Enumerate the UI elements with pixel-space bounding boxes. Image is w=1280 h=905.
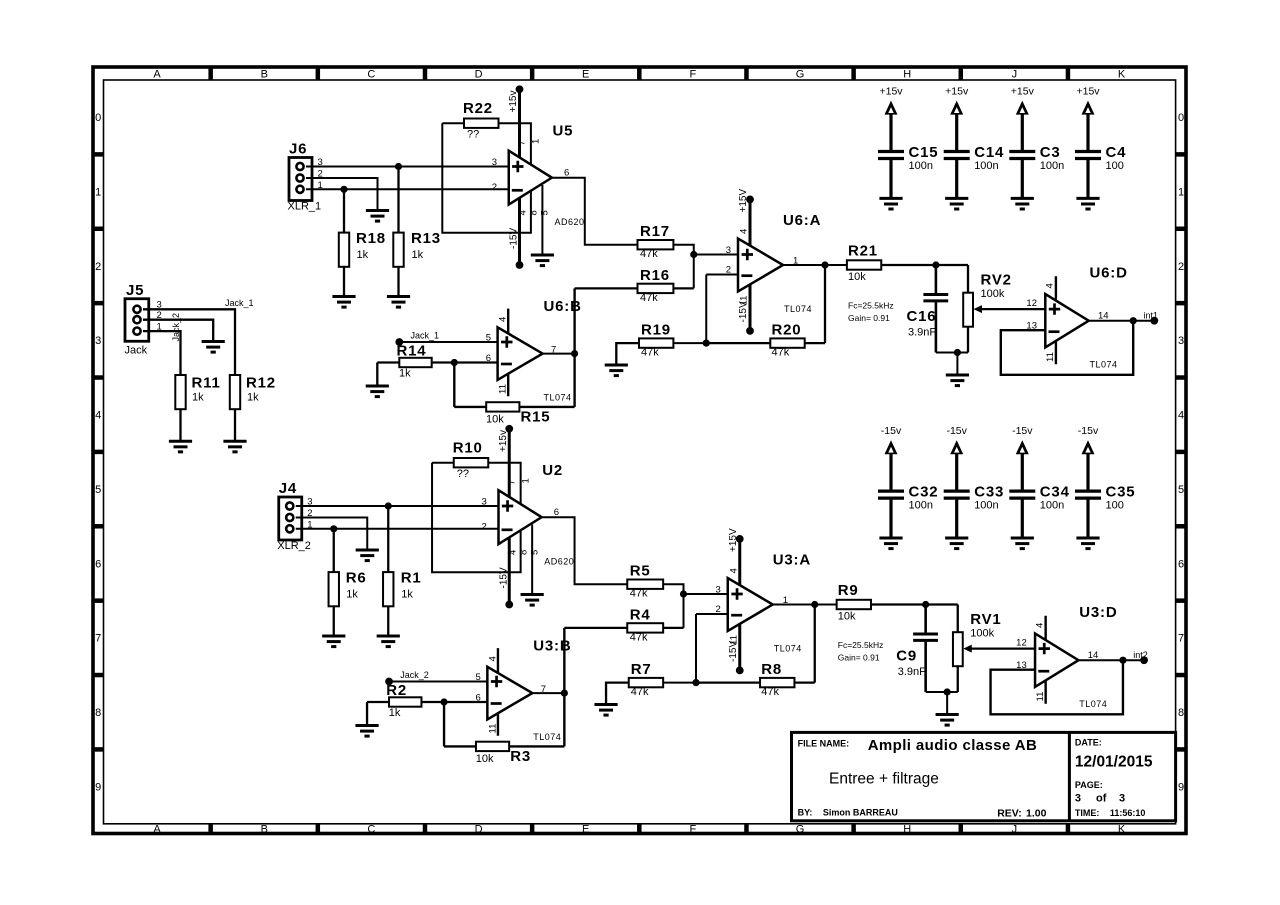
svg-text:4: 4: [728, 568, 739, 573]
svg-text:1k: 1k: [192, 392, 204, 404]
resistor R15 10k: [454, 402, 574, 425]
svg-text:12: 12: [1016, 638, 1027, 649]
wire: [946, 692, 948, 715]
ground: [945, 198, 968, 209]
svg-text:Jack_1: Jack_1: [411, 331, 440, 341]
svg-text:-15v: -15v: [946, 425, 967, 437]
ground: [322, 636, 345, 647]
ground: [223, 441, 246, 452]
resistor R12 1k: [230, 375, 276, 442]
svg-text:0: 0: [1178, 112, 1184, 124]
svg-text:TL074: TL074: [1090, 360, 1118, 370]
wire noninv: [389, 681, 487, 683]
svg-text:1k: 1k: [412, 249, 424, 261]
connector J5 (Jack): [125, 282, 162, 357]
svg-text:Simon BARREAU: Simon BARREAU: [823, 807, 898, 817]
svg-text:R6: R6: [346, 570, 367, 587]
svg-text:100k: 100k: [981, 288, 1005, 300]
svg-text:-15V: -15V: [509, 228, 520, 249]
ground: [521, 595, 544, 606]
resistor R14 1k: [377, 343, 497, 387]
svg-text:R9: R9: [838, 582, 859, 599]
svg-text:100: 100: [1106, 160, 1124, 172]
node Jack_1: [225, 298, 254, 308]
svg-text:Gain= 0.91: Gain= 0.91: [838, 653, 880, 663]
svg-text:DATE:: DATE:: [1075, 737, 1102, 747]
svg-text:R12: R12: [246, 375, 276, 392]
svg-text:R8: R8: [761, 661, 782, 678]
svg-text:R2: R2: [386, 682, 407, 699]
wire pin5: [541, 185, 543, 255]
svg-text:100n: 100n: [974, 500, 998, 512]
svg-text:R3: R3: [510, 748, 531, 765]
svg-text:5: 5: [529, 550, 540, 555]
ground: [366, 386, 389, 397]
junction: [395, 163, 402, 170]
wire: [573, 288, 575, 407]
capacitor C14: [944, 144, 1004, 198]
svg-text:K: K: [1118, 824, 1126, 836]
svg-text:4: 4: [1045, 283, 1056, 288]
wire pin3: [143, 309, 235, 375]
capacitor C3: [1009, 144, 1064, 198]
svg-text:C32: C32: [909, 484, 939, 501]
junction: [954, 349, 961, 356]
svg-text:-15v: -15v: [1012, 425, 1033, 437]
ground: [377, 636, 400, 647]
resistor R10 ??: [453, 440, 489, 481]
svg-text:TL074: TL074: [544, 393, 572, 403]
svg-text:-15v: -15v: [881, 425, 902, 437]
svg-text:8: 8: [529, 210, 540, 215]
svg-text:3: 3: [726, 245, 731, 256]
svg-text:-15V: -15V: [728, 641, 739, 662]
junction: [932, 261, 939, 268]
resistor R5 47k: [627, 563, 663, 600]
svg-text:-15V: -15V: [498, 567, 509, 588]
svg-text:1: 1: [520, 478, 531, 483]
svg-text:2: 2: [1178, 261, 1184, 273]
ground: [605, 365, 628, 376]
junction: [571, 350, 578, 357]
svg-text:8: 8: [95, 707, 101, 719]
wire: [926, 691, 958, 693]
wire pin3: [306, 166, 509, 168]
svg-text:7: 7: [1178, 633, 1184, 645]
svg-text:-15V: -15V: [738, 301, 749, 322]
svg-text:A: A: [153, 824, 161, 836]
svg-text:Jack_2: Jack_2: [400, 670, 429, 680]
svg-text:1k: 1k: [247, 392, 259, 404]
op-amp U5 AD620: [492, 123, 585, 228]
svg-text:10k: 10k: [838, 611, 856, 623]
capacitor C9 3.9nF: [896, 605, 938, 693]
wire feedback: [1001, 321, 1133, 375]
svg-text:11: 11: [498, 384, 509, 394]
wire gain loop: [432, 463, 521, 573]
svg-text:C3: C3: [1040, 144, 1061, 161]
power flag -15v: [881, 425, 902, 491]
svg-text:4: 4: [1034, 623, 1045, 628]
svg-text:U3:B: U3:B: [533, 638, 571, 655]
resistor R20 47k: [706, 265, 825, 359]
ground: [1011, 198, 1034, 209]
svg-text:TL074: TL074: [784, 304, 812, 314]
svg-text:1: 1: [1178, 186, 1184, 198]
svg-text:47k: 47k: [640, 292, 658, 304]
resistor R3 10k: [444, 742, 564, 765]
svg-text:H: H: [903, 69, 911, 81]
svg-text:+15v: +15v: [498, 430, 509, 452]
svg-text:11:56:10: 11:56:10: [1110, 808, 1146, 818]
svg-text:AD620: AD620: [544, 557, 574, 567]
potentiometer RV2 100k: [963, 265, 1045, 353]
svg-text:6: 6: [95, 558, 101, 570]
op-amp U6:B TL074: [486, 298, 582, 403]
junction: [680, 590, 687, 597]
junction: [1119, 657, 1126, 664]
svg-text:1k: 1k: [346, 589, 358, 601]
svg-text:D: D: [475, 69, 483, 81]
svg-text:10k: 10k: [486, 414, 504, 426]
wire noninv: [694, 254, 738, 256]
ground: [946, 375, 969, 386]
svg-text:4: 4: [739, 229, 750, 234]
svg-text:C9: C9: [896, 648, 917, 665]
border frame: [92, 66, 1187, 836]
node int2: [1133, 650, 1148, 664]
wire: [563, 628, 565, 747]
junction: [330, 525, 337, 532]
svg-text:F: F: [690, 69, 697, 81]
svg-text:C35: C35: [1106, 484, 1136, 501]
junction: [690, 251, 697, 258]
wire power stubs: [487, 648, 498, 736]
ground: [1076, 198, 1099, 209]
svg-text:1k: 1k: [401, 589, 413, 601]
svg-text:Jack: Jack: [125, 345, 148, 357]
junction: [944, 688, 951, 695]
resistor R8 47k: [696, 605, 815, 699]
ground: [531, 255, 554, 266]
svg-text:RV2: RV2: [981, 272, 1012, 289]
wire: [936, 352, 968, 354]
svg-text:R5: R5: [630, 563, 651, 580]
svg-text:C16: C16: [907, 308, 937, 325]
node Jack_2: [385, 670, 429, 685]
svg-text:4: 4: [95, 410, 101, 422]
svg-text:1: 1: [95, 186, 101, 198]
svg-text:4: 4: [487, 656, 498, 661]
svg-text:10k: 10k: [476, 753, 494, 765]
svg-text:3: 3: [492, 157, 497, 168]
svg-text:5: 5: [1178, 484, 1184, 496]
svg-text:+15v: +15v: [879, 86, 903, 98]
svg-text:47k: 47k: [630, 588, 648, 600]
resistor R21 10k: [847, 243, 968, 284]
power +15V line: [738, 189, 754, 335]
svg-text:14: 14: [1098, 310, 1109, 321]
svg-text:BY:: BY:: [798, 807, 813, 817]
junction: [1130, 317, 1137, 324]
svg-text:C14: C14: [974, 144, 1004, 161]
svg-text:6: 6: [475, 693, 480, 704]
wire feedback: [991, 660, 1123, 714]
svg-text:12: 12: [1026, 298, 1037, 309]
svg-text:47k: 47k: [772, 347, 790, 359]
svg-text:TL074: TL074: [774, 644, 802, 654]
capacitor C32: [878, 484, 938, 538]
ground: [169, 441, 192, 452]
svg-text:RV1: RV1: [970, 611, 1001, 628]
wire out: [552, 178, 638, 245]
op-amp U6:A TL074: [726, 212, 822, 314]
svg-text:100n: 100n: [1040, 500, 1064, 512]
svg-text:+15v: +15v: [508, 91, 519, 113]
wire out: [1078, 659, 1144, 661]
svg-text:U6:A: U6:A: [783, 212, 821, 229]
svg-text:int1: int1: [1144, 310, 1159, 320]
svg-text:1: 1: [531, 139, 542, 144]
node Jack_1: [395, 331, 439, 346]
svg-text:K: K: [1118, 69, 1126, 81]
svg-text:11: 11: [1035, 692, 1046, 702]
svg-text:2: 2: [715, 604, 720, 615]
wire: [673, 245, 693, 289]
svg-text:TL074: TL074: [1079, 699, 1107, 709]
power flag +15v: [879, 86, 903, 152]
capacitor C34: [1009, 484, 1069, 538]
resistor R16 47k: [575, 267, 694, 304]
wire pin2: [143, 320, 213, 342]
svg-text:G: G: [796, 69, 805, 81]
svg-text:9: 9: [1178, 781, 1184, 793]
ground: [594, 705, 617, 716]
ground: [355, 726, 378, 737]
title block: [792, 732, 1176, 820]
wire power stubs: [498, 309, 509, 397]
svg-text:R14: R14: [397, 343, 427, 360]
svg-text:4: 4: [507, 550, 518, 555]
svg-text:J6: J6: [289, 141, 307, 158]
ground: [366, 211, 389, 222]
resistor R13 1k: [393, 167, 441, 297]
svg-text:R10: R10: [453, 440, 483, 457]
svg-text:Entree + filtrage: Entree + filtrage: [829, 770, 939, 787]
svg-text:TIME:: TIME:: [1075, 808, 1100, 818]
svg-text:5: 5: [540, 210, 551, 215]
svg-text:H: H: [903, 824, 911, 836]
svg-text:AD620: AD620: [555, 217, 585, 227]
ground: [332, 297, 355, 308]
wire pin2: [306, 178, 378, 211]
svg-text:B: B: [261, 824, 268, 836]
svg-text:5: 5: [486, 333, 491, 344]
svg-text:3: 3: [715, 585, 720, 596]
svg-text:3: 3: [1075, 792, 1081, 804]
svg-text:47k: 47k: [631, 686, 649, 698]
svg-text:R15: R15: [521, 409, 551, 426]
ground: [1011, 538, 1034, 549]
svg-text:U6:D: U6:D: [1090, 265, 1128, 282]
svg-text:2: 2: [492, 182, 497, 193]
svg-text:B: B: [261, 69, 268, 81]
svg-text:5: 5: [475, 672, 480, 683]
wire pin5: [531, 525, 533, 595]
ground: [387, 297, 410, 308]
wire noninv: [684, 593, 728, 595]
note Fc/Gain: [838, 640, 884, 663]
resistor R4 47k: [564, 607, 683, 644]
wire pin1: [306, 188, 509, 190]
svg-text:U3:A: U3:A: [773, 552, 811, 569]
svg-text:Gain= 0.91: Gain= 0.91: [848, 313, 890, 323]
wire pin1: [143, 331, 181, 375]
ground: [356, 550, 379, 561]
svg-text:47k: 47k: [641, 347, 659, 359]
svg-text:J4: J4: [279, 480, 297, 497]
svg-text:4: 4: [518, 210, 529, 215]
wire inv: [705, 275, 707, 344]
power flag -15v: [946, 425, 967, 491]
wire: [673, 342, 706, 344]
node Jack_2: [171, 313, 181, 342]
op-amp U3:A TL074: [715, 552, 811, 654]
power +15v line: [498, 425, 513, 608]
capacitor C33: [944, 484, 1004, 538]
wire: [696, 613, 728, 615]
svg-text:9: 9: [95, 781, 101, 793]
svg-text:1k: 1k: [357, 249, 369, 261]
resistor R9 10k: [837, 582, 958, 623]
resistor R22 ??: [463, 100, 499, 141]
ground: [879, 538, 902, 549]
junction: [692, 679, 699, 686]
op-amp U3:B TL074: [475, 638, 571, 743]
svg-text:7: 7: [95, 633, 101, 645]
note Fc/Gain: [848, 301, 894, 324]
junction: [703, 340, 710, 347]
svg-text:J5: J5: [126, 282, 144, 299]
power flag -15v: [1078, 425, 1099, 491]
junction: [821, 261, 828, 268]
svg-text:1.00: 1.00: [1026, 807, 1047, 819]
wire pin2: [296, 518, 368, 551]
wire pin3: [296, 505, 499, 507]
svg-text:A: A: [153, 69, 161, 81]
svg-text:D: D: [475, 824, 483, 836]
wire out: [543, 353, 575, 355]
capacitor C35: [1075, 484, 1135, 538]
svg-text:int2: int2: [1133, 650, 1148, 660]
wire: [453, 363, 455, 407]
svg-text:14: 14: [1088, 650, 1099, 661]
ground: [945, 538, 968, 549]
svg-text:R13: R13: [411, 230, 441, 247]
capacitor C15: [878, 144, 938, 198]
svg-text:0: 0: [95, 112, 101, 124]
junction: [340, 186, 347, 193]
svg-text:+15v: +15v: [945, 86, 969, 98]
wire: [663, 682, 696, 684]
resistor R6 1k: [329, 529, 367, 636]
power flag +15v: [945, 86, 969, 152]
svg-text:11: 11: [487, 724, 498, 734]
node int1: [1144, 310, 1159, 324]
svg-text:100n: 100n: [1040, 160, 1064, 172]
wire out: [783, 264, 847, 266]
svg-text:R18: R18: [356, 230, 386, 247]
wire pin1: [296, 528, 499, 530]
resistor R18 1k: [339, 189, 386, 296]
resistor R19 47k: [616, 322, 673, 366]
wire gain loop: [442, 123, 531, 233]
svg-text:12/01/2015: 12/01/2015: [1075, 753, 1153, 770]
resistor R2 1k: [367, 682, 487, 726]
svg-text:U2: U2: [542, 462, 563, 479]
wire inv: [695, 614, 697, 683]
svg-text:100: 100: [1106, 500, 1124, 512]
svg-text:100n: 100n: [909, 160, 933, 172]
wire out: [773, 604, 837, 606]
ground: [936, 715, 959, 726]
resistor R7 47k: [606, 661, 663, 705]
svg-text:+15v: +15v: [1011, 86, 1035, 98]
power +15v line: [508, 85, 523, 269]
svg-text:R19: R19: [641, 322, 671, 339]
svg-text:R20: R20: [772, 322, 802, 339]
svg-text:8: 8: [1178, 707, 1184, 719]
svg-text:??: ??: [467, 129, 479, 141]
svg-text:6: 6: [486, 353, 491, 364]
svg-text:Ampli audio classe AB: Ampli audio classe AB: [868, 737, 1038, 754]
svg-text:R16: R16: [640, 267, 670, 284]
wire out: [542, 517, 628, 584]
svg-text:4: 4: [1178, 410, 1184, 422]
svg-text:6: 6: [1178, 558, 1184, 570]
svg-text:1k: 1k: [389, 707, 401, 719]
svg-text:2: 2: [726, 265, 731, 276]
svg-text:Fc=25.5kHz: Fc=25.5kHz: [838, 640, 884, 650]
svg-text:R22: R22: [463, 100, 493, 117]
svg-text:11: 11: [1045, 352, 1056, 362]
junction: [385, 502, 392, 509]
svg-text:R17: R17: [640, 223, 670, 240]
junction: [922, 601, 929, 608]
svg-text:U6:B: U6:B: [544, 298, 582, 315]
svg-text:3: 3: [481, 497, 486, 508]
svg-text:3.9nF: 3.9nF: [908, 327, 936, 339]
svg-text:Jack_1: Jack_1: [225, 298, 254, 308]
svg-text:C15: C15: [909, 144, 939, 161]
svg-text:+15V: +15V: [728, 528, 739, 552]
capacitor C4: [1075, 144, 1126, 198]
wire out: [1089, 320, 1155, 322]
connector J6 (XLR_1): [288, 141, 323, 213]
op-amp U6:D TL074: [1026, 265, 1127, 370]
ground: [202, 342, 225, 353]
svg-text:3: 3: [1119, 792, 1125, 804]
svg-text:3.9nF: 3.9nF: [898, 666, 926, 678]
svg-text:+15v: +15v: [1076, 86, 1100, 98]
svg-text:4: 4: [498, 317, 509, 322]
svg-text:J: J: [1012, 824, 1018, 836]
ground: [879, 198, 902, 209]
power +15V line: [728, 528, 744, 674]
svg-text:3: 3: [1178, 335, 1184, 347]
svg-text:C4: C4: [1106, 144, 1127, 161]
svg-text:REV:: REV:: [997, 807, 1022, 819]
